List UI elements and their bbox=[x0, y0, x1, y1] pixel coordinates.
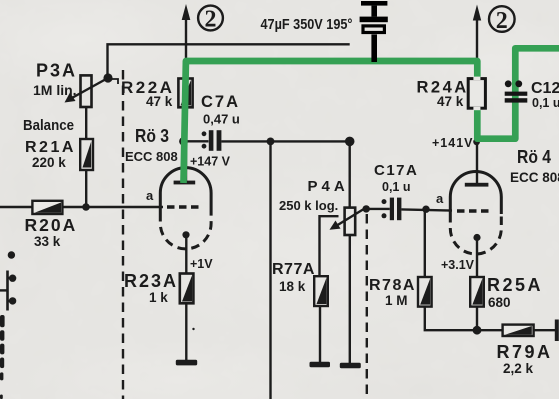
svg-text:680: 680 bbox=[488, 295, 511, 310]
wire top rail horizontal from P3A node to P4A bbox=[108, 44, 350, 78]
svg-text:47µF 350V 195°: 47µF 350V 195° bbox=[261, 16, 353, 33]
dashed divider left bbox=[122, 70, 124, 399]
speck near R23A bbox=[192, 328, 194, 330]
svg-text:Rö 3: Rö 3 bbox=[135, 125, 169, 146]
annotation capacitor symbol 47uF bbox=[360, 1, 388, 62]
svg-text:2: 2 bbox=[205, 7, 217, 33]
tube U2 Roe4 envelope solid top bbox=[450, 172, 501, 215]
resistor R21A bbox=[80, 139, 93, 170]
capacitor C12 (drawn over green) bbox=[505, 80, 528, 102]
resistor R78A bbox=[418, 277, 432, 307]
wire R23A bottom to ground bbox=[185, 303, 187, 361]
wire node E to C17A bbox=[366, 208, 390, 210]
svg-text:18 k: 18 k bbox=[279, 279, 306, 294]
ground P4A bbox=[340, 363, 361, 368]
wire node F down to R78A bbox=[424, 209, 426, 277]
wire R24A lead / +141V node / Roe4 anode lead bbox=[476, 60, 478, 183]
svg-text:C17A: C17A bbox=[374, 162, 418, 179]
wire stub right of node A bbox=[112, 79, 118, 84]
capacitor C7A bbox=[202, 130, 222, 151]
wire Roe3 cathode lead to R23A bbox=[185, 235, 187, 274]
edge component plate (cut off) bbox=[555, 320, 559, 342]
svg-text:C12: C12 bbox=[531, 80, 559, 97]
svg-text:0,1 u: 0,1 u bbox=[532, 96, 559, 110]
dashed divider right bbox=[366, 214, 368, 399]
svg-text:R25A: R25A bbox=[487, 275, 543, 295]
wire node C down to bottom edge bbox=[269, 141, 271, 399]
node F junction dot R78A top bbox=[422, 206, 429, 213]
svg-text:R20A: R20A bbox=[25, 215, 78, 235]
tube U1 Roe3 cathode dot bbox=[182, 231, 189, 238]
potentiometer P4A wiper arrow bbox=[330, 209, 365, 230]
node anode junction dot (peeks at green edge) bbox=[179, 137, 188, 146]
svg-text:0,1 u: 0,1 u bbox=[382, 180, 411, 194]
wire R77A bottom to ground bbox=[319, 306, 321, 363]
node E junction dot P4A wiper / C17A bbox=[363, 205, 370, 212]
capacitor C17A bbox=[382, 198, 402, 221]
scan blob edge 3 bbox=[0, 344, 4, 355]
resistor R23A bbox=[180, 274, 194, 304]
svg-text:P3A: P3A bbox=[36, 61, 77, 81]
svg-text:R21A: R21A bbox=[25, 139, 76, 156]
svg-text:R77A: R77A bbox=[272, 261, 315, 278]
svg-text:Rö 4: Rö 4 bbox=[517, 146, 552, 167]
wire R79A to edge component bbox=[534, 329, 555, 331]
node C junction dot C7A output bbox=[267, 138, 275, 146]
svg-text:220 k: 220 k bbox=[32, 155, 66, 170]
net label circle 2 right bbox=[489, 6, 515, 34]
tube U1 Roe3 envelope dashed bottom bbox=[160, 213, 211, 249]
scan blob edge 1 bbox=[0, 315, 5, 327]
scan blob edge 6 bbox=[0, 395, 3, 399]
svg-text:+147 V: +147 V bbox=[190, 155, 231, 169]
scan blob edge 5 bbox=[0, 372, 3, 380]
resistor R22A bbox=[178, 79, 192, 108]
resistor R20A bbox=[32, 201, 62, 214]
svg-text:R78A: R78A bbox=[369, 277, 416, 294]
tube U2 Roe4 cathode dot bbox=[473, 234, 480, 241]
svg-text:1M lin.: 1M lin. bbox=[33, 82, 77, 98]
svg-text:+3.1V: +3.1V bbox=[441, 258, 475, 272]
svg-text:250 k log.: 250 k log. bbox=[279, 198, 338, 213]
wire R25A bottom to node G bbox=[476, 307, 478, 331]
svg-text:1 k: 1 k bbox=[149, 290, 168, 305]
resistor R77A bbox=[314, 276, 328, 306]
wire R22A top lead / Roe3 anode lead (under green) bbox=[185, 44, 187, 182]
tube U2 Roe4 grid dashed bbox=[457, 209, 489, 212]
scan blob edge 4 bbox=[0, 358, 4, 369]
svg-text:a: a bbox=[146, 188, 154, 203]
svg-text:Balance: Balance bbox=[23, 117, 74, 134]
svg-text:0,47 u: 0,47 u bbox=[203, 112, 240, 127]
potentiometer P3A body bbox=[81, 75, 92, 107]
potentiometer P4A body bbox=[345, 208, 356, 235]
wire C7A to P4A top node bbox=[221, 140, 349, 142]
wire P3A bottom to R21A bbox=[85, 107, 87, 139]
node D junction dot P4A top bbox=[345, 137, 355, 147]
scan blob edge 2 bbox=[0, 330, 4, 340]
supply arrow 2 bbox=[473, 5, 481, 61]
potentiometer P3A wiper arrow bbox=[65, 79, 108, 103]
svg-text:R79A: R79A bbox=[497, 342, 553, 362]
node A junction dot at P3A wiper feed bbox=[103, 73, 112, 82]
svg-text:+141V: +141V bbox=[432, 136, 474, 150]
svg-text:2: 2 bbox=[496, 8, 508, 34]
supply arrow 1 bbox=[182, 4, 191, 44]
tube U1 Roe3 grid dashed bbox=[167, 205, 200, 208]
svg-text:33 k: 33 k bbox=[34, 234, 61, 249]
svg-text:P4A: P4A bbox=[308, 178, 349, 195]
ground R23A bbox=[176, 360, 197, 366]
resistor R25A bbox=[470, 277, 484, 307]
node G junction dot cathode network bbox=[473, 326, 482, 335]
svg-text:ECC 808: ECC 808 bbox=[510, 170, 559, 185]
tube U1 Roe3 anode bar bbox=[174, 181, 196, 185]
scan mark bracket line left edge bbox=[6, 271, 9, 311]
tube U2 Roe4 envelope dashed bottom bbox=[450, 214, 501, 254]
svg-text:C7A: C7A bbox=[201, 93, 240, 111]
wire R78A bottom to node G bbox=[425, 307, 503, 331]
wire Roe4 cathode lead to R25A bbox=[476, 238, 478, 278]
svg-text:47 k: 47 k bbox=[437, 94, 464, 109]
svg-text:a: a bbox=[436, 191, 444, 206]
svg-text:+1V: +1V bbox=[190, 257, 213, 271]
svg-text:2,2 k: 2,2 k bbox=[503, 361, 534, 376]
tube U2 Roe4 anode bar bbox=[465, 183, 489, 187]
svg-text:ECC 808: ECC 808 bbox=[125, 149, 178, 164]
wire P4A wiper to R77A bbox=[320, 216, 339, 276]
ground R77A bbox=[310, 362, 331, 367]
wire R21A bottom to grid line bbox=[85, 170, 87, 207]
scan mark dot 1 left edge bbox=[8, 251, 15, 258]
scan mark dot 2 bbox=[8, 275, 17, 282]
green highlight overlay wire bbox=[184, 48, 559, 183]
scan mark tick bbox=[0, 289, 8, 291]
node H dot at +141V (under green) bbox=[473, 138, 480, 145]
wire node D down to P4A body bbox=[349, 141, 351, 207]
net label circle 2 left bbox=[198, 6, 223, 33]
wire C17A to Roe4 grid bbox=[401, 209, 452, 210]
tube U1 Roe3 envelope solid top bbox=[160, 168, 211, 213]
svg-text:47 k: 47 k bbox=[146, 94, 173, 109]
wire input grid line Roe3 bbox=[0, 206, 163, 209]
wire anode node to C7A bbox=[186, 140, 209, 142]
resistor R79A bbox=[503, 325, 534, 336]
svg-text:R23A: R23A bbox=[124, 271, 178, 291]
resistor R24A (drawn over green) bbox=[468, 77, 485, 111]
node B junction dot R21A / grid wire bbox=[82, 203, 90, 211]
scan mark dot 3 bbox=[8, 297, 17, 304]
svg-text:1 M: 1 M bbox=[385, 293, 408, 308]
wire P4A bottom to ground bbox=[349, 235, 351, 364]
